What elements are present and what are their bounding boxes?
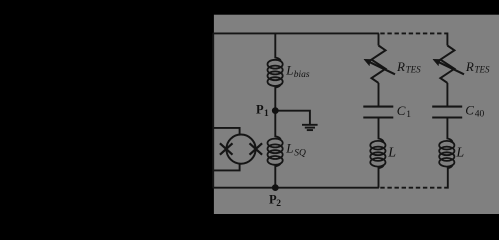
arrow of variable resistor RTES 1 xyxy=(364,59,395,74)
label RTES 1 xyxy=(396,59,421,74)
wire: LSQ to node P2 xyxy=(275,163,280,188)
svg-text:R: R xyxy=(465,59,474,74)
Josephson junction X left xyxy=(220,143,233,154)
capacitor C1 plates xyxy=(363,107,393,118)
Josephson junction X right xyxy=(250,143,263,154)
svg-text:L: L xyxy=(285,62,293,77)
wire: node P1 to ground xyxy=(275,111,310,124)
label RTES 2 xyxy=(465,59,490,74)
label P1 xyxy=(256,103,269,120)
wire: L 2 to bottom dashed rail corner xyxy=(446,165,452,189)
wire: left vertical rail at panel edge xyxy=(212,33,214,187)
svg-text:1: 1 xyxy=(264,109,269,119)
svg-text:R: R xyxy=(396,59,405,74)
svg-text:SQ: SQ xyxy=(294,148,306,158)
svg-text:P: P xyxy=(256,103,264,117)
svg-text:1: 1 xyxy=(406,110,411,120)
gray figure panel xyxy=(214,15,499,214)
svg-text:C: C xyxy=(465,103,474,118)
svg-text:bias: bias xyxy=(294,70,310,80)
wire: node P1 to LSQ xyxy=(275,111,280,141)
wire: stub top dashed rail to RTES 2 xyxy=(446,33,448,46)
svg-text:TES: TES xyxy=(406,64,422,74)
resistor RTES 1 zigzag xyxy=(372,46,386,83)
wire: stub top rail to Lbias xyxy=(275,33,280,61)
label C40 xyxy=(465,103,484,120)
svg-text:2: 2 xyxy=(276,199,281,209)
arrow of variable resistor RTES 2 xyxy=(433,59,464,74)
wire: C1 to inductor L 1 xyxy=(379,119,384,143)
wire: L 1 to bottom rail xyxy=(379,165,384,188)
inductor L coil 2 xyxy=(439,141,454,167)
SQUID loop circle xyxy=(226,135,255,164)
wire: bottom rail solid segment xyxy=(213,187,379,189)
label C1 xyxy=(397,103,412,120)
node P2 junction dot xyxy=(272,184,279,191)
svg-text:L: L xyxy=(387,145,396,160)
capacitor C40 plates xyxy=(432,107,462,118)
wire: Lbias to node P1 xyxy=(275,84,280,111)
inductor LSQ coil xyxy=(268,139,283,165)
wire: SQUID top bracket xyxy=(213,128,240,135)
inductor Lbias coil xyxy=(268,60,283,86)
wire: top rail solid segment xyxy=(213,32,379,34)
wire: SQUID bottom bracket xyxy=(213,164,240,171)
label Lbias xyxy=(285,62,310,80)
node P1 junction dot xyxy=(272,107,279,114)
svg-text:40: 40 xyxy=(475,110,485,120)
wire: C40 to inductor L 2 xyxy=(447,119,452,143)
wire: RTES 1 to capacitor C1 xyxy=(378,83,380,106)
resistor RTES 2 zigzag xyxy=(440,46,454,83)
wire: top rail dashed segment xyxy=(380,32,447,34)
svg-text:L: L xyxy=(285,141,293,156)
wire: stub top rail to RTES 1 xyxy=(378,33,380,45)
wire: RTES 2 to capacitor C40 xyxy=(446,83,448,106)
label P2 xyxy=(269,193,281,209)
svg-text:C: C xyxy=(397,103,406,118)
svg-text:L: L xyxy=(455,145,464,160)
svg-text:TES: TES xyxy=(475,64,491,74)
ground symbol xyxy=(302,125,318,130)
inductor L coil 1 xyxy=(370,141,385,167)
wire: bottom rail dashed segment xyxy=(380,187,446,189)
label LSQ xyxy=(285,141,306,159)
